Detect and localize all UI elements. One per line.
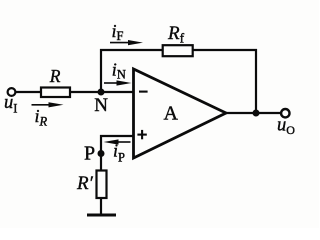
ground [87,214,116,217]
wire: feedback rail down to output node [255,49,257,114]
current arrow i_F [110,42,130,44]
svg-text:iN: iN [112,60,126,82]
svg-text:R′: R′ [76,173,94,194]
svg-text:Rf: Rf [167,23,185,46]
svg-text:R: R [49,66,61,86]
svg-text:iF: iF [112,21,124,43]
resistor Rf [163,45,193,56]
inverting input minus sign [139,91,148,93]
non-inverting input plus sign [137,134,146,136]
wire: node N up to feedback branch [100,49,102,92]
op-amp A (triangle) [134,69,227,158]
node N (junction dot) [98,89,105,96]
wire: resistor R to op-amp inverting input through node N [70,91,134,93]
resistor R [41,88,70,98]
svg-text:uI: uI [4,93,17,115]
wire: node P down to resistor R' [100,155,102,171]
current arrow i_P (pointing left) [116,141,131,143]
terminal u_I (input open circle) [8,88,16,96]
output node (junction dot) [253,110,260,117]
node P (junction dot) [98,150,105,157]
svg-text:A: A [164,102,179,124]
wire: op-amp output to terminal [225,112,282,114]
current arrow i_N [104,82,119,84]
svg-text:N: N [94,95,108,116]
terminal u_O (output open circle) [281,109,289,117]
svg-text:iR: iR [35,106,48,128]
current arrow i_R [32,104,51,106]
wire: resistor R' to ground [100,198,102,215]
wire: feedback top rail [100,49,257,51]
svg-text:iP: iP [113,141,125,165]
resistor R' [97,171,107,199]
svg-text:uO: uO [277,116,295,138]
wire: node P to non-inverting input [101,136,134,153]
wire: input terminal to resistor R [15,91,41,93]
svg-text:P: P [84,143,95,165]
